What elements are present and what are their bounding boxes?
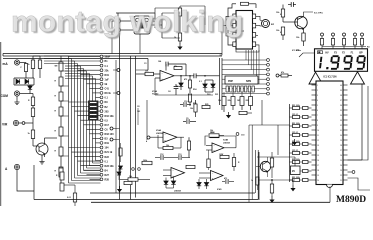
IC1 pin R2 xyxy=(343,89,348,91)
harness bottom turn 8 xyxy=(90,165,101,167)
harness wire V7 xyxy=(86,71,88,168)
switch contact 5 xyxy=(100,73,103,76)
IC1 pin L17 xyxy=(312,164,317,166)
svg-text:24: 24 xyxy=(340,165,342,167)
svg-text:R51 100k: R51 100k xyxy=(292,177,300,179)
connector contact 3 xyxy=(267,68,270,71)
svg-text:13: 13 xyxy=(317,145,319,147)
switch contact 13 xyxy=(100,110,103,113)
connector drop 1 xyxy=(245,50,247,60)
svg-text:9M: 9M xyxy=(55,66,58,68)
svg-text:15: 15 xyxy=(317,155,319,157)
buzzer wires xyxy=(256,16,262,21)
switch contact 26 xyxy=(100,169,103,172)
svg-text:C3: C3 xyxy=(144,63,146,65)
ladder tap 6 xyxy=(61,155,69,157)
bottom cluster diode xyxy=(117,172,121,175)
svg-text:R31: R31 xyxy=(105,74,110,77)
transistor Q3 (bottom cluster) xyxy=(260,161,270,171)
wire IC1 to display right xyxy=(348,86,369,160)
ann resistor 4 xyxy=(353,39,356,46)
svg-text:22: 22 xyxy=(340,175,342,177)
IC1 pin R1 xyxy=(343,84,348,86)
svg-text:LM358: LM358 xyxy=(223,142,231,144)
svg-text:mA: mA xyxy=(3,62,9,66)
svg-text:R51 100k: R51 100k xyxy=(292,159,300,161)
ladder tap 2 xyxy=(61,85,69,87)
resistor RL7 xyxy=(59,167,63,176)
bottom-left resistors near A xyxy=(60,172,64,180)
IC1 pin L15 xyxy=(312,154,317,156)
switch contact 23 xyxy=(100,155,103,158)
resistor R5 xyxy=(31,130,34,139)
node circle 4 xyxy=(147,136,150,139)
switch contact 7 xyxy=(100,82,103,85)
switch contact 20 xyxy=(100,142,103,145)
switch contact 12 xyxy=(100,105,103,108)
bottom bus wires xyxy=(90,192,255,194)
connector drop 4 xyxy=(253,50,255,74)
IC1 pin L16 xyxy=(312,159,317,161)
resistor RT1 xyxy=(179,6,181,8)
svg-text:35: 35 xyxy=(340,110,342,112)
top connector J1 xyxy=(116,19,121,24)
svg-text:R22: R22 xyxy=(105,156,110,159)
svg-text:23: 23 xyxy=(340,170,342,172)
left page border line xyxy=(0,42,2,206)
resistor RB3 xyxy=(186,165,195,168)
wire top of input resistors xyxy=(33,55,40,57)
buzzer BZ xyxy=(262,20,270,28)
svg-text:18: 18 xyxy=(317,170,319,172)
ladder tap 4 xyxy=(61,115,69,117)
wire A terminal down and right xyxy=(17,170,34,191)
ladder tap 1 xyxy=(61,70,69,72)
mesh component 3 xyxy=(89,109,99,112)
svg-text:V/R: V/R xyxy=(2,123,8,127)
socket pin 4 xyxy=(237,86,239,92)
harness bottom turn 9 xyxy=(93,162,101,164)
resistor RM3 xyxy=(240,97,244,106)
IC1 right main vertical wire xyxy=(361,85,363,161)
svg-text:203: 203 xyxy=(105,110,110,113)
svg-text:C21 0.1: C21 0.1 xyxy=(292,150,298,152)
resistor R33 xyxy=(210,134,219,137)
mesh component 1 xyxy=(89,101,99,104)
socket pin 3 xyxy=(233,86,235,92)
wire to right border xyxy=(205,75,220,77)
svg-text:R25: R25 xyxy=(205,104,208,106)
svg-text:R51 100k: R51 100k xyxy=(292,123,300,125)
IC1 pin R4 xyxy=(343,99,348,101)
svg-text:10uF: 10uF xyxy=(105,56,111,59)
IC1 pin L3 xyxy=(312,94,317,96)
svg-text:BP: BP xyxy=(359,52,363,55)
capacitor C0 xyxy=(154,13,156,18)
IC1 pin R5 xyxy=(343,104,348,106)
connector contact 8 xyxy=(267,92,270,95)
svg-text:31: 31 xyxy=(340,130,342,132)
IC1 pin L2 xyxy=(312,89,317,91)
resistor RM4 horizontal xyxy=(239,111,247,114)
svg-text:2: 2 xyxy=(317,90,318,92)
RC pair 3 xyxy=(293,124,300,127)
misc long wires xyxy=(146,100,148,140)
switch contact 16 xyxy=(100,123,103,126)
switch contact 10 xyxy=(100,96,103,99)
LCD digits 19.99 xyxy=(320,56,365,69)
harness bottom turn 3 xyxy=(75,177,101,179)
resistor chain R3 xyxy=(32,94,34,98)
IC3 left wires xyxy=(226,16,233,36)
RC pair 9 xyxy=(293,178,300,181)
svg-text:R27: R27 xyxy=(105,174,110,177)
svg-text:LM358: LM358 xyxy=(174,191,182,193)
ann terminal 3 xyxy=(343,33,346,36)
cap CR1 xyxy=(222,181,225,183)
harness wire V8 xyxy=(89,74,91,166)
svg-text:C21 0.1: C21 0.1 xyxy=(292,114,298,116)
svg-text:D10: D10 xyxy=(207,94,210,96)
node circle C10 xyxy=(236,133,239,136)
ann terminal 1 xyxy=(321,33,324,36)
svg-text:17: 17 xyxy=(317,165,319,167)
IC3 pin R2 xyxy=(253,23,256,28)
resistor RB1 xyxy=(128,178,138,181)
svg-text:29: 29 xyxy=(340,140,342,142)
svg-text:1: 1 xyxy=(317,85,318,87)
harness wire V10 xyxy=(95,79,97,161)
switch contact 8 xyxy=(100,87,103,90)
IC3 pin L2 xyxy=(233,23,236,28)
connector contact 1 xyxy=(267,59,270,62)
resistor RL3 xyxy=(59,92,63,101)
connector drop 2 xyxy=(248,50,250,65)
IC1 pin R11 xyxy=(343,134,348,136)
bottom cluster ground xyxy=(117,186,122,192)
RC pair 7 xyxy=(293,160,300,163)
resistor R34 xyxy=(209,134,219,137)
resistor R25 xyxy=(202,105,210,108)
junction dots IC2A out xyxy=(180,75,182,77)
svg-text:C21 0.1: C21 0.1 xyxy=(292,132,298,134)
harness bottom turn 6 xyxy=(84,170,101,172)
socket pin 6 xyxy=(245,86,247,92)
harness wire V5 xyxy=(80,66,82,173)
svg-text:R28: R28 xyxy=(105,179,110,182)
socket pin 1 xyxy=(226,86,228,92)
harness wire V6 xyxy=(83,69,85,171)
Q2 emitter down xyxy=(303,29,305,34)
op-amp IC4B xyxy=(212,143,224,153)
resistor RT2 xyxy=(178,33,181,41)
ann resistor 5 xyxy=(360,39,363,46)
socket pin 8 xyxy=(252,86,254,92)
svg-text:3: 3 xyxy=(317,95,318,97)
right area: resistor RX1 xyxy=(271,152,273,158)
ann terminal 5 xyxy=(361,33,364,36)
resistor R2 (input) xyxy=(39,56,41,60)
svg-text:34: 34 xyxy=(340,115,342,117)
IC1 pin R16 xyxy=(343,159,348,161)
op-amp IC4A xyxy=(163,132,177,143)
svg-text:104: 104 xyxy=(105,147,110,150)
resistor R26 vertical xyxy=(187,141,190,150)
svg-text:20: 20 xyxy=(317,180,319,182)
harness wire V4 xyxy=(77,64,79,176)
svg-text:6: 6 xyxy=(317,110,318,112)
IC1 pin L4 xyxy=(312,99,317,101)
socket pin 2 xyxy=(230,86,232,92)
socket pin 7 xyxy=(248,86,250,92)
IC1 pin L12 xyxy=(312,139,317,141)
svg-text:C9: C9 xyxy=(186,118,188,120)
bus corner verticals xyxy=(255,150,257,193)
svg-text:32: 32 xyxy=(340,125,342,127)
harness horizontal taps left xyxy=(44,55,69,57)
hFE right component xyxy=(276,74,279,77)
RC left bus vertical xyxy=(289,104,291,182)
resistor R1 (input) xyxy=(32,56,34,60)
ground RT xyxy=(179,41,181,44)
resistor RM2 xyxy=(231,97,235,106)
svg-text:11: 11 xyxy=(317,135,319,137)
mesh component 4 xyxy=(89,113,99,116)
harness wire V9 xyxy=(92,76,94,163)
switch contact 9 xyxy=(100,92,103,95)
diode pair D7 D8 xyxy=(203,84,207,87)
wire fuse to diode node xyxy=(25,72,27,79)
svg-text:28: 28 xyxy=(340,145,342,147)
ann bus wire xyxy=(322,46,366,48)
switch contact 21 xyxy=(100,146,103,149)
wiper contact W2 xyxy=(117,92,120,95)
switch contact 6 xyxy=(100,78,103,81)
resistor R12 xyxy=(188,80,191,88)
bottom cluster resistor xyxy=(124,181,132,184)
RC pair 8 xyxy=(293,169,300,172)
wire block to bus xyxy=(139,34,141,54)
svg-text:IC4D: IC4D xyxy=(217,188,222,191)
center bus verticals xyxy=(115,60,117,193)
resistor RL5 xyxy=(59,127,63,136)
wires J1 to block xyxy=(120,20,134,22)
switch contact 27 xyxy=(100,173,103,176)
svg-text:R18 100: R18 100 xyxy=(105,133,115,136)
IC1 pin R7 xyxy=(343,114,348,116)
svg-text:0.1: 0.1 xyxy=(199,81,202,83)
svg-text:30: 30 xyxy=(340,135,342,137)
IC1 pin R18 xyxy=(343,169,348,171)
svg-text:M890D: M890D xyxy=(336,195,366,205)
right vertical border pair xyxy=(219,58,221,105)
svg-text:21: 21 xyxy=(340,180,342,182)
resistor R11 feedback xyxy=(174,67,182,70)
ann terminal 4 xyxy=(354,33,357,36)
harness bottom turn 7 xyxy=(87,167,101,169)
resistor R24 xyxy=(194,104,197,112)
fuse F1 xyxy=(24,64,27,72)
cap C1 xyxy=(194,73,196,78)
svg-text:40: 40 xyxy=(340,85,342,87)
IC3 pin L4 xyxy=(233,42,236,47)
svg-text:C10: C10 xyxy=(184,101,187,103)
mesh component 2 xyxy=(89,105,99,108)
svg-text:HV: HV xyxy=(325,52,329,55)
svg-text:C10: C10 xyxy=(241,135,244,137)
svg-text:103: 103 xyxy=(137,111,140,113)
svg-text:NPN: NPN xyxy=(246,80,251,83)
resistor R37 vertical xyxy=(207,159,210,168)
svg-text:10: 10 xyxy=(317,130,319,132)
svg-text:36: 36 xyxy=(340,105,342,107)
IC1 pin R17 xyxy=(343,164,348,166)
resistor R10 input xyxy=(136,73,145,75)
feedback cap C2 xyxy=(165,64,167,71)
ladder tap 5 xyxy=(61,135,69,137)
resistor RR1 vertical xyxy=(232,158,235,167)
IC1 pin L9 xyxy=(312,124,317,126)
IC1 pin L6 xyxy=(312,109,317,111)
resistor R36 below xyxy=(220,155,229,158)
node diodes D5 D6 xyxy=(180,76,182,83)
svg-text:9: 9 xyxy=(317,125,318,127)
4-pin component block (pot) xyxy=(134,16,150,34)
svg-text:LM358: LM358 xyxy=(156,133,164,135)
IC1 pin R9 xyxy=(343,124,348,126)
resistor R20 above IC3 xyxy=(241,2,249,5)
svg-text:1uF: 1uF xyxy=(105,79,110,82)
svg-text:COM: COM xyxy=(1,94,9,98)
harness bottom turn 4 xyxy=(78,175,101,177)
IC3 pin L3 xyxy=(233,33,236,38)
svg-text:5: 5 xyxy=(317,105,318,107)
svg-text:1k: 1k xyxy=(251,180,253,182)
IC1 bottom notch xyxy=(327,185,333,188)
cap C3 xyxy=(175,84,177,86)
wire top center xyxy=(117,13,119,19)
svg-text:472: 472 xyxy=(184,78,187,81)
connector contact 4 xyxy=(267,73,270,76)
svg-text:R21 1k: R21 1k xyxy=(105,151,113,154)
harness bottom turn 2 xyxy=(72,180,101,182)
ground at COM xyxy=(16,96,18,99)
svg-text:PNP: PNP xyxy=(228,80,233,83)
RC pair 1 xyxy=(293,106,300,109)
IC3 pin R1 xyxy=(253,14,256,19)
switch contact 28 xyxy=(100,178,103,181)
ann resistor 1 xyxy=(320,39,323,46)
ground right xyxy=(292,180,294,185)
switch contact 18 xyxy=(100,132,103,135)
right-of-column resistor xyxy=(119,148,122,156)
svg-text:IC1 27Pin: IC1 27Pin xyxy=(314,13,324,15)
lower wires IC2A area xyxy=(154,78,156,95)
top bus wires xyxy=(3,53,222,55)
ann resistor 2 xyxy=(331,39,334,46)
J1 left stubs xyxy=(112,20,116,22)
svg-text:R51 100k: R51 100k xyxy=(292,105,300,107)
IC1 pin R6 xyxy=(343,109,348,111)
IC1 pin L20 xyxy=(312,179,317,181)
svg-text:R16 10k: R16 10k xyxy=(105,115,115,118)
svg-text:1M: 1M xyxy=(237,100,240,102)
wire V/R to divider xyxy=(25,122,33,124)
svg-text:C12: C12 xyxy=(160,154,163,156)
long vertical x130 bottom hook xyxy=(130,199,132,201)
switch contact 19 xyxy=(100,137,103,140)
svg-text:37: 37 xyxy=(340,100,342,102)
switch contact 15 xyxy=(100,119,103,122)
connector contact 7 xyxy=(267,87,270,90)
harness wire V3 xyxy=(74,61,76,178)
svg-text:19: 19 xyxy=(317,175,319,177)
RC pair 5 xyxy=(293,142,300,145)
wire RX horizontal xyxy=(258,179,295,181)
IC1 pin L1 xyxy=(312,84,317,86)
IC1 pin R13 xyxy=(343,144,348,146)
hFE socket block xyxy=(225,76,258,84)
A branch vertical xyxy=(33,165,35,200)
connector contact 5 xyxy=(267,78,270,81)
ann terminal 2 xyxy=(332,33,335,36)
svg-text:IC4A: IC4A xyxy=(156,129,161,132)
socket pin 5 xyxy=(241,86,243,92)
svg-text:12: 12 xyxy=(317,140,319,142)
resistor RM3b xyxy=(249,97,253,106)
IC1 pin R15 xyxy=(343,154,348,156)
switch contact 3 xyxy=(100,64,103,67)
svg-text:R17: R17 xyxy=(105,124,110,127)
svg-text:14: 14 xyxy=(317,150,319,152)
svg-text:8: 8 xyxy=(317,120,318,122)
resistor chain R4 xyxy=(32,106,34,109)
wire loop around IC3 xyxy=(228,4,233,45)
IC1 pin L7 xyxy=(312,114,317,116)
IC3 pin R3 xyxy=(253,33,256,38)
resistor R42 xyxy=(302,33,305,41)
IC1 pin L8 xyxy=(312,119,317,121)
right-of-column diode xyxy=(119,166,123,169)
harness bottom turn 10 xyxy=(96,160,101,162)
wiper contact W3 xyxy=(110,127,113,130)
svg-text:38: 38 xyxy=(340,95,342,97)
cap C20 top right xyxy=(288,4,291,6)
RC pair 4 xyxy=(293,133,300,136)
svg-text:D11: D11 xyxy=(215,94,218,96)
svg-text:C13: C13 xyxy=(178,154,181,156)
switch contact 22 xyxy=(100,151,103,154)
wiper contact W1 xyxy=(117,69,120,72)
bottom cluster contacts xyxy=(132,168,135,171)
resistor RL4 xyxy=(59,107,63,116)
diode pair DB1 xyxy=(164,181,168,184)
svg-text:7: 7 xyxy=(317,115,318,117)
arrow left (display bus) xyxy=(309,72,323,84)
harness bottom turn 1 xyxy=(69,182,101,184)
battery box xyxy=(257,156,295,158)
svg-text:27: 27 xyxy=(340,150,342,152)
IC1 ICL7106 body xyxy=(316,81,343,185)
switch contact 25 xyxy=(100,164,103,167)
ground RC bus xyxy=(292,139,297,145)
feeder horizontals xyxy=(249,124,290,126)
resistor RL1 xyxy=(59,62,63,71)
IC2A output wire xyxy=(174,75,194,77)
svg-text:IC4B: IC4B xyxy=(223,139,228,142)
resistor R13 xyxy=(188,94,191,102)
svg-text:9V: 9V xyxy=(292,170,295,173)
